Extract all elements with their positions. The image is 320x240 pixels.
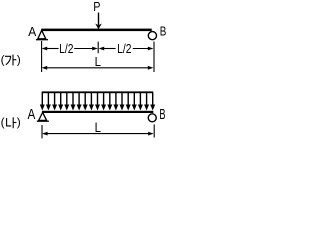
svg-text:L/2: L/2 [59, 41, 73, 56]
pin support A (triangle) [38, 30, 46, 39]
distributed load arrows [42, 93, 152, 106]
dimension L/2 (left half) [42, 47, 48, 51]
distributed load top line [42, 91, 154, 93]
hangul NA: ㅏ stroke [12, 117, 14, 128]
svg-text:(: ( [1, 52, 5, 66]
extension line right (나) [153, 124, 155, 137]
hangul GA: ㄱ stroke [5, 56, 11, 65]
svg-text:B: B [159, 107, 165, 123]
svg-text:P: P [93, 0, 100, 14]
point load arrow P [98, 13, 100, 25]
svg-text:A: A [28, 24, 36, 39]
dimension L/2 (right half) [99, 47, 105, 51]
pin support A (triangle, 나) [39, 112, 47, 120]
beam (나) [42, 111, 153, 113]
roller support B (circle) [148, 31, 156, 39]
svg-text:(: ( [1, 115, 5, 129]
svg-text:L: L [95, 120, 102, 135]
extension line right (B) [153, 42, 155, 73]
beam (가) [41, 29, 151, 32]
svg-text:): ) [17, 115, 21, 129]
svg-text:A: A [28, 107, 36, 123]
svg-text:L: L [95, 54, 101, 69]
svg-text:B: B [160, 25, 167, 39]
extension line left (나) [41, 125, 43, 138]
extension line mid (under P) [97, 42, 99, 54]
svg-text:L/2: L/2 [117, 41, 131, 56]
hangul GA: ㅏ stroke [12, 55, 14, 66]
roller support B (circle, 나) [148, 114, 156, 122]
svg-text:): ) [17, 52, 21, 66]
extension line left (A) [41, 41, 43, 72]
hangul NA: ㄴ stroke [7, 118, 12, 126]
